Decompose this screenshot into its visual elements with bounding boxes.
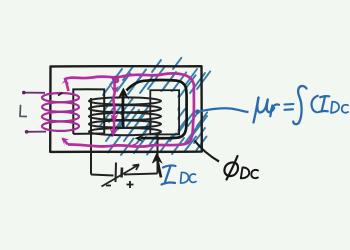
terminal dot bottom (25, 130, 29, 134)
winding L lead wire bottom (27, 131, 46, 133)
magenta flux loop: left stub with up arrow (66, 80, 69, 92)
magenta flux loop: end arrowhead (62, 138, 70, 146)
magenta flux loop: right edge (186, 86, 194, 144)
DC source circuit bottom wire right (124, 174, 158, 175)
label I_DC (blue) (162, 166, 176, 185)
small black tick on coil top (58, 93, 63, 96)
core right window (150, 90, 179, 134)
black pointer curve to phi_DC label (195, 141, 220, 162)
label phi_DC (black handwritten) (224, 156, 258, 180)
hatching (core material, blue pen strokes) (100, 58, 210, 155)
magenta flux loop: bottom mid arrowhead (132, 142, 140, 149)
DC source circuit bottom wire left (91, 175, 114, 176)
core left window (73, 89, 104, 134)
magenta flux loop: top edge (64, 73, 194, 86)
battery short plate (120, 168, 123, 178)
terminal dot top (22, 91, 26, 95)
magenta blob where arrow meets top (112, 77, 118, 82)
core outer outline (50, 66, 202, 152)
label L (20, 106, 26, 117)
magenta flux loop: bottom edge (68, 144, 186, 147)
minus label (106, 185, 111, 187)
DC winding right lead (157, 133, 159, 174)
black flux loop phi_DC: left arrowhead on bottom (135, 134, 145, 142)
core left window bottom edge (73, 133, 104, 135)
winding L lead wire top (24, 92, 45, 94)
black flux loop phi_DC: up arrow in center leg (121, 94, 124, 128)
DC winding left lead (90, 98, 92, 175)
blue dot + pointer curve to mu_r label (195, 109, 200, 114)
battery long plate (115, 163, 118, 183)
magenta center-leg flux arrow (down) (113, 78, 116, 134)
DC control winding (black, on center leg) (89, 97, 161, 135)
I_DC current arrow (157, 157, 161, 178)
variable source arrow (102, 165, 140, 187)
plus label (127, 181, 134, 188)
winding L coil (magenta, on left leg) (42, 93, 79, 131)
black flux loop phi_DC: around right window (127, 80, 187, 138)
label mu_r = f(I_DC (blue handwritten) (254, 86, 349, 124)
